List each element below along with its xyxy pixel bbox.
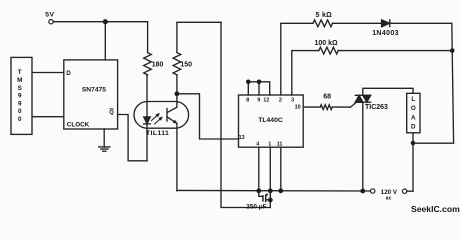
svg-text:D: D bbox=[411, 124, 416, 131]
junction collector/150 bbox=[175, 91, 180, 96]
svg-text:3: 3 bbox=[291, 97, 294, 103]
wire bottom rail bbox=[177, 189, 371, 192]
wire LOAD bottom bbox=[412, 133, 414, 191]
svg-text:11: 11 bbox=[277, 141, 283, 147]
svg-text:T: T bbox=[18, 69, 22, 76]
svg-text:TIL111: TIL111 bbox=[146, 130, 169, 137]
svg-text:1: 1 bbox=[268, 141, 271, 147]
wire 150 bottom to collector node bbox=[176, 75, 178, 94]
wire 5V to R 180 top bbox=[147, 22, 149, 53]
svg-text:SN7475: SN7475 bbox=[82, 87, 106, 94]
svg-text:9: 9 bbox=[18, 100, 22, 107]
regulator U2 TL440C box bbox=[239, 95, 304, 147]
wire LED cathode lead bbox=[146, 124, 148, 161]
optocoupler U3 TIL111 body bbox=[134, 102, 189, 129]
svg-text:9: 9 bbox=[257, 97, 260, 103]
wire gate lead bbox=[351, 102, 357, 107]
junction triac rail bbox=[360, 189, 365, 194]
svg-text:100 kΩ: 100 kΩ bbox=[315, 40, 339, 47]
light arrow 1 bbox=[152, 115, 159, 121]
junction pin 4 rail bbox=[256, 188, 261, 193]
svg-text:9: 9 bbox=[18, 93, 22, 100]
svg-text:12: 12 bbox=[263, 97, 269, 103]
svg-text:2: 2 bbox=[279, 97, 282, 103]
svg-text:0: 0 bbox=[18, 116, 22, 123]
ground bbox=[103, 129, 105, 147]
svg-text:180: 180 bbox=[152, 62, 164, 69]
junction LOAD bottom bbox=[411, 141, 416, 146]
svg-text:10: 10 bbox=[295, 104, 301, 110]
diode LED of TIL111 bbox=[144, 117, 151, 124]
resistor 68 bbox=[320, 105, 332, 110]
wire diode to right vertical bbox=[390, 22, 452, 24]
wire pin 9 stub bbox=[258, 82, 260, 95]
wire pin 3 to 100k bbox=[292, 51, 319, 95]
wire R180 to LED anode bbox=[146, 75, 148, 117]
svg-text:M: M bbox=[17, 77, 22, 84]
svg-text:5V: 5V bbox=[45, 12, 54, 19]
wire 120V right segment bbox=[407, 190, 413, 192]
svg-text:A: A bbox=[411, 115, 416, 122]
svg-text:O: O bbox=[411, 105, 416, 112]
node 5V terminal bbox=[49, 20, 53, 24]
svg-text:4: 4 bbox=[256, 141, 259, 147]
wire long vertical to bottom bbox=[221, 22, 270, 207]
transistor emitter bbox=[167, 117, 177, 124]
transistor of TIL111 base bar bbox=[166, 109, 168, 122]
wire 5V rail bbox=[53, 21, 147, 23]
junction 5V rail bbox=[103, 19, 108, 24]
resistor 180 bbox=[144, 53, 152, 75]
wire pin 8 stub bbox=[247, 82, 249, 95]
light arrow 2 bbox=[155, 118, 162, 124]
diode D1 1N4003 bbox=[382, 20, 390, 27]
capacitor C1 250uF leads bbox=[259, 191, 263, 197]
wire right vertical bbox=[413, 23, 454, 143]
wire pin 11 stub bbox=[280, 147, 282, 191]
junction pin 11 rail bbox=[278, 188, 283, 193]
svg-text:SeekIC.com: SeekIC.com bbox=[411, 204, 460, 214]
transistor collector bbox=[167, 94, 177, 113]
svg-text:Q: Q bbox=[109, 110, 114, 116]
wire emitter to bottom rail bbox=[176, 123, 178, 190]
wire pin 10 to 68 bbox=[303, 106, 320, 108]
svg-text:L: L bbox=[411, 96, 415, 103]
wire TMS9900 to D input bbox=[32, 72, 64, 74]
svg-text:D: D bbox=[66, 70, 71, 77]
wire collector node to pin 13 of U2 bbox=[177, 94, 239, 139]
wire pins 8-9-12 tie bbox=[248, 82, 269, 95]
latch U1 SN7475 box bbox=[64, 60, 118, 129]
wire pin 1 stub bbox=[269, 147, 271, 207]
wire TMS9900 to CLOCK input bbox=[32, 116, 64, 118]
wire 5V drop to SN7475 Vcc bbox=[104, 22, 106, 60]
svg-text:5 kΩ: 5 kΩ bbox=[316, 12, 333, 19]
junction pin 8 bbox=[246, 80, 251, 85]
svg-text:68: 68 bbox=[323, 94, 331, 101]
capacitor plus sign bbox=[266, 193, 269, 196]
triac Q1 TIC263 bbox=[355, 94, 370, 96]
svg-text:150: 150 bbox=[180, 62, 192, 69]
svg-text:8: 8 bbox=[246, 97, 249, 103]
svg-text:S: S bbox=[18, 85, 22, 92]
wire 150 top to long vertical bbox=[177, 22, 221, 52]
box LOAD bbox=[407, 93, 420, 133]
wire triac MT1 to bottom rail bbox=[362, 102, 364, 191]
junction pin 9 bbox=[257, 80, 262, 85]
wire triac MT2 to LOAD top bbox=[363, 88, 413, 95]
resistor 150 bbox=[173, 53, 181, 75]
svg-text:CLOCK: CLOCK bbox=[67, 121, 90, 128]
svg-text:250 μF: 250 μF bbox=[246, 204, 266, 211]
wire 5k to diode bbox=[333, 22, 382, 24]
svg-text:TL440C: TL440C bbox=[258, 117, 283, 124]
wire pin 2 to 5k bbox=[281, 23, 313, 95]
junction capacitor plus bbox=[268, 198, 273, 203]
svg-text:0: 0 bbox=[18, 108, 22, 115]
wire 68 to gate bbox=[332, 106, 350, 108]
svg-text:TIC263: TIC263 bbox=[365, 104, 388, 111]
node 120V terminal left bbox=[371, 189, 375, 193]
resistor 5 kOhm bbox=[313, 20, 333, 27]
node 120V terminal right bbox=[402, 189, 406, 193]
svg-text:1N4003: 1N4003 bbox=[372, 30, 399, 37]
junction 100k diode bbox=[450, 48, 455, 53]
resistor 100 kOhm bbox=[319, 47, 338, 54]
svg-text:13: 13 bbox=[239, 135, 245, 141]
wire Qbar output to LED cathode bbox=[118, 115, 147, 161]
svg-text:ac: ac bbox=[386, 196, 392, 202]
wire 100k to right vertical bbox=[338, 50, 452, 52]
box TMS9900 bbox=[11, 57, 32, 134]
junction pin 1 rail bbox=[268, 188, 273, 193]
wire pin 4 stub bbox=[258, 147, 260, 191]
